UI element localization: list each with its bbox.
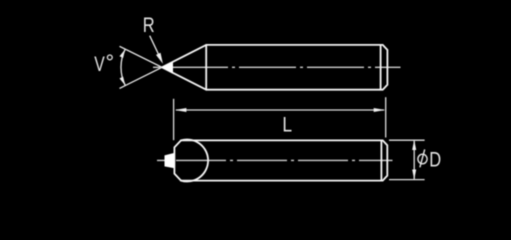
svg-text:R: R xyxy=(143,14,155,37)
svg-text:V: V xyxy=(94,53,105,76)
svg-text:L: L xyxy=(282,114,292,137)
svg-text:D: D xyxy=(429,149,441,172)
